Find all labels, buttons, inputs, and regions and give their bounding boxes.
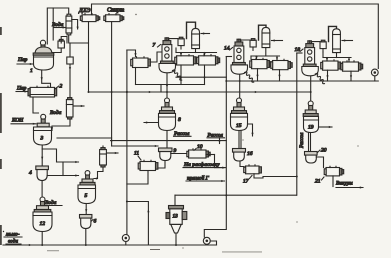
svg-text:Спирт: Спирт	[107, 8, 125, 14]
vessel SV4 feeder	[320, 40, 326, 52]
svg-text:КОН: КОН	[11, 118, 24, 124]
fitting on vertical feed	[67, 57, 73, 64]
wire G1 cross connector	[176, 76, 226, 78]
wire G1 manifold to process line	[160, 85, 162, 93]
tank Spirt (Спирт)	[104, 14, 124, 22]
wire Spirt drain trunk	[111, 22, 113, 146]
wire DC3 bottom manifold	[336, 53, 338, 58]
tank DXE (ДХЭ)	[80, 14, 99, 22]
wire x296 top elbow into R18	[297, 52, 302, 54]
wire condenser bottom to cross line	[69, 35, 89, 43]
coil S1	[173, 70, 182, 80]
pump P1	[122, 235, 129, 246]
wire line La	[57, 137, 112, 139]
drum D1A	[175, 55, 196, 65]
wire connector x63	[62, 162, 64, 176]
wire long vertical x226	[204, 57, 226, 238]
wire cyclone feed line	[175, 194, 297, 196]
vessel V20	[305, 152, 318, 164]
drum D3B	[341, 61, 363, 71]
coil S3	[315, 73, 324, 83]
wire arrow into DC2	[272, 40, 283, 42]
svg-text:18: 18	[295, 47, 301, 53]
svg-text:3: 3	[40, 136, 44, 142]
wire line Lb	[111, 140, 227, 142]
wire G1 bottom manifold	[136, 84, 205, 86]
wire U pipe G2	[259, 25, 267, 40]
wire branch R3 to vessel5 zone	[42, 149, 78, 162]
wire R3 bottom to vessel4	[41, 145, 43, 166]
svg-text:17: 17	[243, 179, 249, 185]
condenser column K0	[66, 14, 72, 35]
svg-text:4: 4	[29, 169, 32, 176]
speck marks	[47, 14, 359, 253]
svg-text:Пар: Пар	[17, 57, 28, 63]
wire drum drains G2	[257, 69, 259, 81]
wire V5 to V6	[85, 204, 87, 215]
wire KOH arrow	[11, 123, 36, 125]
svg-text:Рассол: Рассол	[299, 132, 305, 149]
column DC3	[333, 29, 341, 53]
vessel V16	[233, 149, 246, 162]
wire R18 outlet into V19	[310, 76, 312, 101]
wire right long vertical x296	[296, 53, 298, 195]
vessel V5 agitated	[78, 171, 96, 204]
wire V19 right arrow	[319, 126, 333, 128]
scan edge artifacts	[0, 28, 2, 244]
svg-text:ДХЭ: ДХЭ	[78, 8, 90, 14]
wire par arrow into R1	[17, 63, 33, 65]
svg-text:1: 1	[30, 68, 33, 74]
wire R1 bottom to HX2	[42, 70, 51, 87]
wire R14 outlet into V15	[239, 75, 241, 99]
svg-text:19: 19	[308, 125, 314, 131]
wire U pipe G1	[187, 22, 196, 38]
wire V9 outlet right to tank10	[171, 153, 187, 155]
wire vertical feed to water column	[69, 43, 71, 98]
wire VC1 top side arrow	[73, 105, 84, 107]
wire drum D1L drain	[135, 68, 137, 85]
wire R7 top to feeder	[166, 38, 168, 41]
wire arrow out left of V8	[144, 122, 159, 124]
svg-text:20: 20	[321, 148, 327, 154]
tank T21	[324, 166, 343, 176]
pump P3 right	[371, 69, 378, 81]
wire VC2 top stub	[102, 146, 104, 148]
drum D1B	[197, 55, 220, 65]
vessel SV1 sight feeder	[58, 39, 64, 48]
wire x226 top elbow into R14	[226, 56, 231, 58]
reactor R7	[159, 38, 176, 73]
wire R12 bottom drain	[41, 232, 43, 246]
wire R7 outlet down into V8	[166, 73, 168, 98]
wire SV1 outlet to reactor1	[53, 48, 62, 53]
cyclone V13	[166, 206, 187, 234]
svg-text:15: 15	[236, 123, 242, 129]
coil S2	[245, 72, 254, 82]
vessel SV2 feeder	[178, 37, 184, 49]
wire V4 outlet right to vessel5	[47, 175, 78, 177]
reactor R1	[33, 40, 54, 70]
vessel V15 agitated	[231, 98, 248, 131]
wire trunk top elbow to drum1L	[127, 50, 136, 57]
svg-text:13: 13	[173, 214, 179, 220]
wire V19 bottom to V20	[308, 133, 310, 152]
wire G2-G3 long manifold	[226, 80, 378, 82]
heat exchanger HX2	[28, 86, 57, 97]
wire bottom long line	[32, 244, 217, 246]
wire drum drains G3	[327, 70, 329, 81]
svg-text:5: 5	[85, 193, 88, 199]
wire long mid process line y92	[89, 91, 311, 93]
wire center trunk	[126, 50, 128, 235]
wire drum drains G1	[180, 65, 182, 85]
wire vakuum arrow	[336, 187, 363, 189]
drum D2A	[250, 58, 271, 68]
drum D3A	[321, 60, 342, 70]
wire V8 bottom	[166, 131, 168, 149]
wire R14 top to feeder	[238, 39, 240, 42]
wire T17 drain to long path	[254, 174, 297, 178]
svg-text:8: 8	[178, 117, 181, 123]
wire rassol2 down arrow	[219, 138, 221, 144]
reactor R14	[231, 39, 248, 74]
wire rasfasovka arrow	[215, 167, 226, 169]
svg-text:12: 12	[40, 221, 46, 227]
wire cyclone drain	[175, 233, 177, 245]
wire DXE drain	[88, 22, 90, 92]
reactor R12 agitated	[33, 197, 52, 232]
wire V9 outlet down to tank11	[158, 161, 166, 169]
wire condenser outlet right elbow	[72, 20, 78, 30]
column VC2	[100, 148, 107, 167]
column DC1	[192, 28, 200, 48]
svg-text:7: 7	[153, 43, 156, 49]
vessel V19 agitated	[303, 101, 318, 133]
wire pryamoy arrow	[186, 180, 225, 182]
svg-text:11: 11	[134, 151, 139, 157]
tank T10	[187, 149, 210, 158]
reactor R3 agitated	[34, 114, 52, 145]
wire drum D1L right to reactor7 inlet	[150, 52, 162, 62]
wire cyclone top stub	[174, 195, 176, 205]
wire V6 drain	[85, 229, 87, 246]
svg-text:21: 21	[315, 179, 321, 185]
wire V20 outlet to T21	[316, 157, 323, 168]
svg-text:6: 6	[94, 219, 97, 225]
wire DC1 bottom manifold	[195, 49, 197, 53]
wire U pipe G3	[329, 26, 337, 41]
svg-text:Вода: Вода	[50, 109, 62, 116]
svg-text:14: 14	[224, 45, 230, 52]
wire VC2 outlet into V5	[94, 167, 103, 179]
wire T11 drain to trunk	[127, 171, 148, 185]
wire reflux lines above reactor 1	[47, 8, 68, 44]
wire second riser	[52, 8, 54, 40]
wire VC1 outlet to reactor3	[52, 119, 70, 131]
vessel V6	[80, 215, 92, 229]
vessel V8 agitated	[159, 98, 176, 131]
wire V15 bottom to V16	[238, 131, 240, 149]
column DC2	[262, 27, 270, 47]
vessel SV3 feeder	[250, 39, 256, 51]
wire arrow into DC1	[201, 33, 210, 35]
reactor R18	[302, 41, 319, 76]
drum D2B	[271, 59, 292, 69]
wire T10 drain elbow	[214, 155, 216, 168]
wire SV1 top stub	[61, 37, 67, 44]
wire V15 right elbow arrow	[248, 124, 253, 136]
wire VC2 side arrow	[108, 152, 119, 154]
svg-text:На расфасовку: На расфасовку	[183, 161, 220, 168]
wire par arrow into HX2	[16, 91, 28, 93]
column VC1 water column	[66, 98, 73, 119]
svg-text:Вакуум: Вакуум	[336, 181, 353, 187]
wire mylo-voda arrow	[3, 244, 32, 246]
wire V4 bottom to reactor12	[41, 181, 43, 198]
wire line Lc	[112, 145, 158, 147]
vessel V4	[36, 166, 49, 181]
wire T21 drain	[332, 176, 334, 187]
wire R18 top to feeder	[309, 41, 311, 44]
wire DC2 bottom manifold	[265, 48, 267, 56]
wire voda arrow into condenser	[54, 27, 66, 29]
tank T17	[244, 165, 262, 174]
wire top main header y=4	[92, 4, 379, 69]
svg-text:2: 2	[60, 84, 63, 90]
svg-text:16: 16	[247, 151, 253, 157]
wire V16 outlet to T17	[240, 161, 244, 167]
wire arrow into DC3	[342, 40, 353, 42]
vessel V9	[159, 148, 173, 161]
tank T11	[138, 160, 158, 170]
pump P2	[203, 237, 216, 245]
drum D1L left of reactor 7	[131, 57, 151, 68]
svg-text:10: 10	[197, 144, 203, 150]
wire HX2 outlet down to reactor 3	[33, 97, 39, 113]
wire trunk branch to riser	[127, 202, 148, 246]
